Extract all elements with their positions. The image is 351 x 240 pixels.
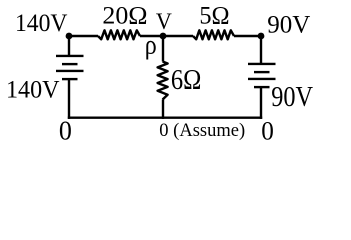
resistor 5Ω [193,30,234,39]
wire top-left segment [69,35,98,37]
svg-text:0: 0 [261,116,274,146]
svg-text:0 (Assume): 0 (Assume) [159,121,245,141]
resistor 6Ω [158,62,168,100]
svg-text:90V: 90V [267,12,310,39]
svg-text:V: V [156,9,172,35]
wire top-right segment [234,35,261,37]
label 0 bottom-right [261,116,274,146]
voltage source V1 140V battery [56,56,84,79]
wire right battery bottom lead [260,87,262,119]
svg-text:ρ: ρ [145,30,157,60]
svg-text:0: 0 [59,115,72,146]
wire middle branch bottom lead [162,100,164,119]
label node V [156,9,172,35]
label 90V top-right [267,12,310,39]
wire left battery bottom lead [68,79,70,119]
node B junction dot right [258,33,265,40]
svg-text:140V: 140V [15,10,68,37]
label 90V right [271,82,313,113]
svg-text:6Ω: 6Ω [171,65,202,96]
wire right battery top lead [260,36,262,64]
label 0 (Assume) bottom-middle [159,121,245,141]
node V junction dot middle [160,33,167,40]
label 6Ω value [171,65,202,96]
label 5Ω value [199,3,229,30]
wire middle branch top lead [162,36,164,62]
wire left battery top lead [68,36,70,56]
wire bottom [68,116,262,118]
label 0 bottom-left [59,115,72,146]
svg-text:5Ω: 5Ω [199,3,229,30]
label rho [145,30,157,60]
svg-text:20Ω: 20Ω [102,3,147,30]
svg-text:140V: 140V [6,77,60,104]
voltage source V2 90V battery [248,64,276,87]
label 140V left [6,77,60,104]
label 140V top-left [15,10,68,37]
label 20Ω value [102,3,147,30]
resistor 20Ω [98,30,140,39]
wire top-middle segment [140,35,193,37]
node A junction dot left [66,33,73,40]
svg-text:90V: 90V [271,82,313,113]
